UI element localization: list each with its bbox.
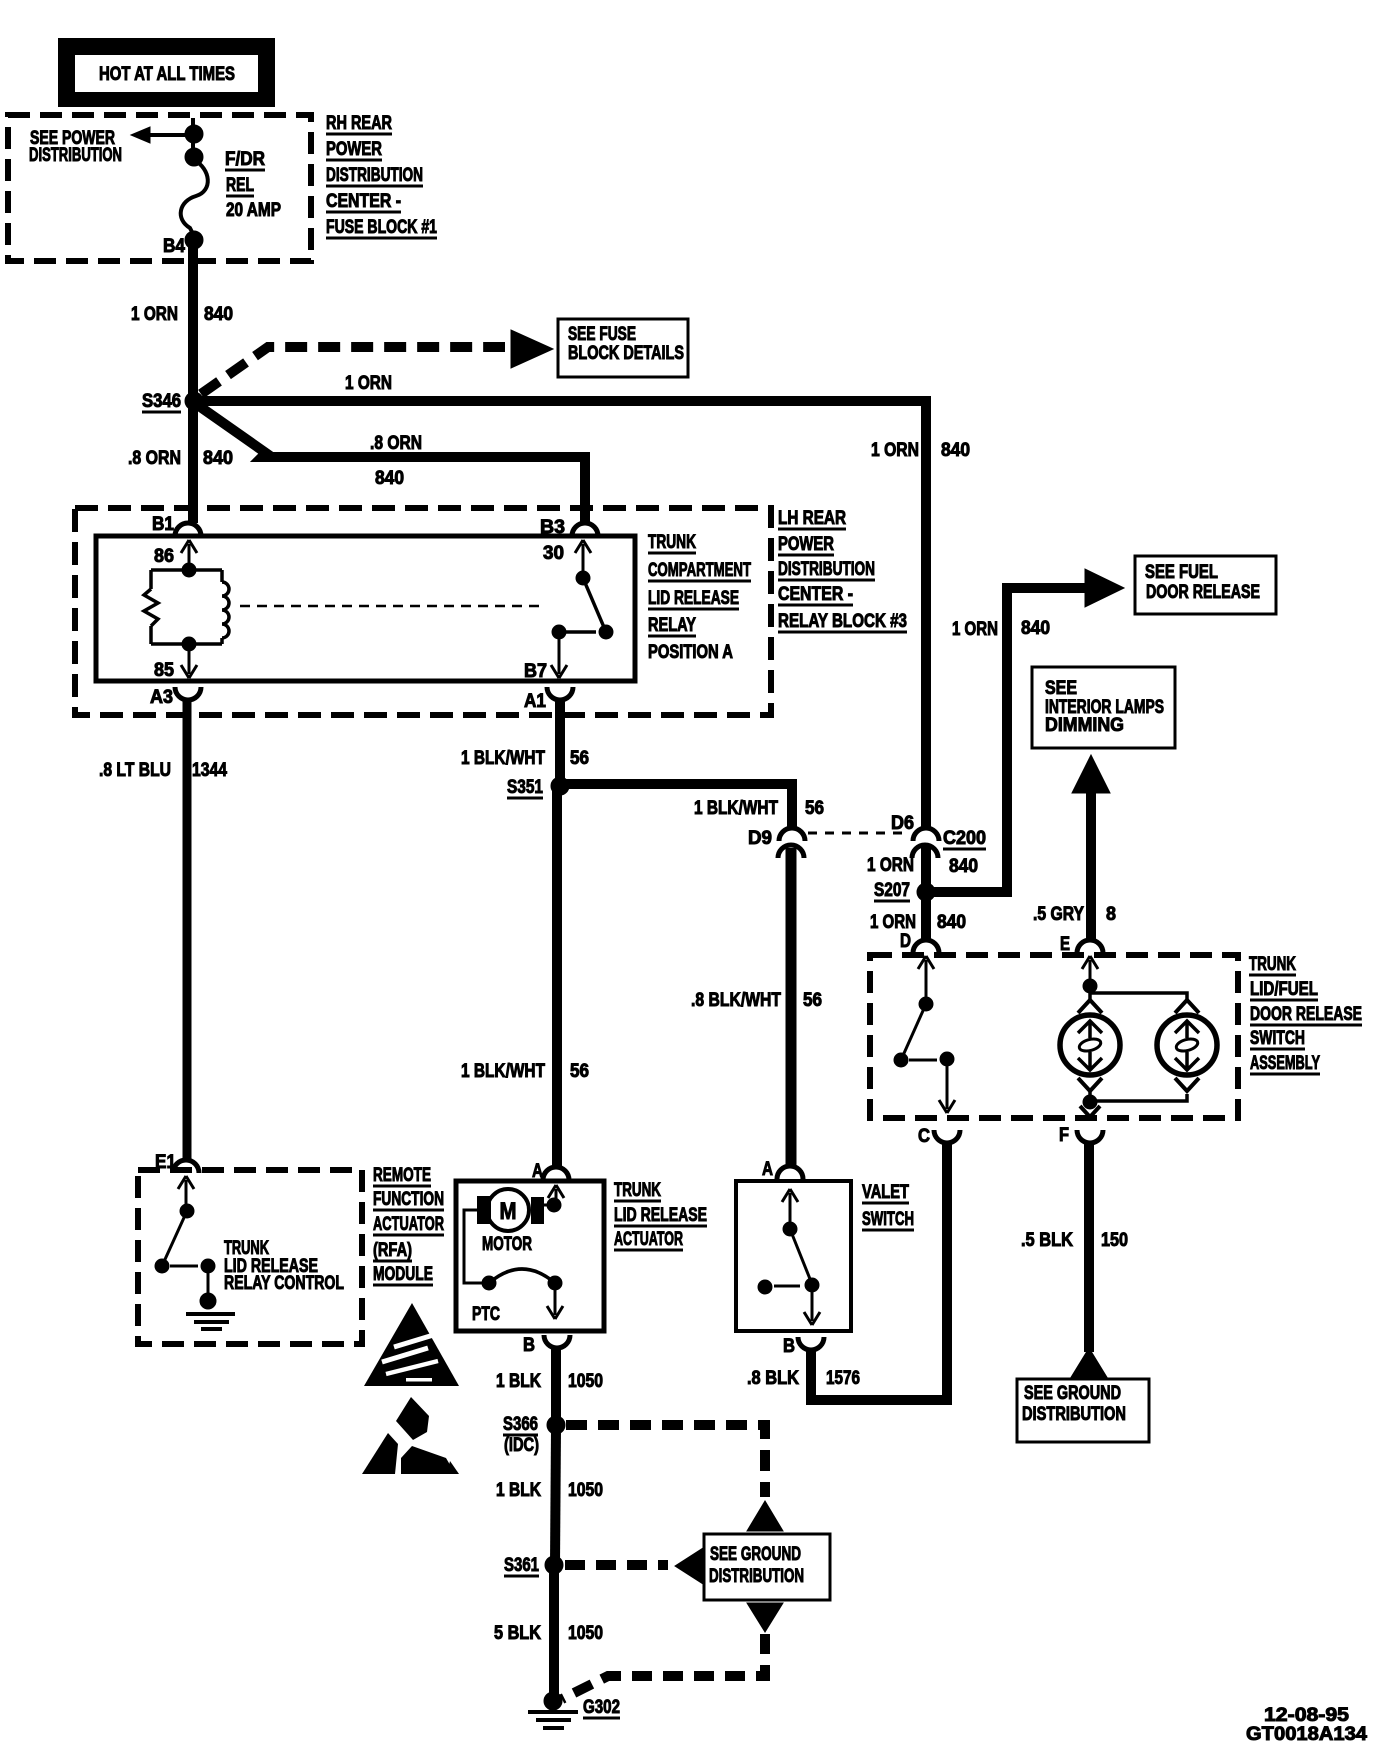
svg-text:85: 85 — [154, 660, 174, 681]
svg-text:1 BLK: 1 BLK — [496, 1371, 541, 1392]
RFA contact left — [155, 1259, 169, 1273]
valet contact link dash — [774, 1285, 800, 1288]
svg-text:POSITION A: POSITION A — [648, 642, 733, 663]
motor M — [477, 1189, 544, 1231]
svg-text:8: 8 — [1106, 904, 1116, 925]
relay switch blade — [583, 578, 606, 632]
svg-text:B: B — [783, 1336, 795, 1357]
svg-text:B3: B3 — [540, 517, 565, 538]
wire B4 to S346 (1 ORN 840) — [188, 243, 198, 397]
svg-text:840: 840 — [949, 856, 978, 877]
connector A3 — [175, 687, 201, 700]
svg-text:SEE GROUND: SEE GROUND — [1024, 1383, 1121, 1404]
svg-text:5 BLK: 5 BLK — [494, 1623, 541, 1644]
svg-text:840: 840 — [204, 304, 233, 325]
ESD warning symbol 1 — [364, 1303, 459, 1386]
assembly contact right — [940, 1052, 954, 1066]
svg-text:840: 840 — [937, 912, 966, 933]
svg-text:D: D — [900, 931, 911, 952]
arrowhead to interior lamps dimming — [1072, 755, 1110, 793]
bulb branch wiring bottom — [1090, 1091, 1187, 1101]
svg-text:1576: 1576 — [826, 1368, 860, 1389]
callout box SEE GROUND DISTRIBUTION — [704, 1534, 830, 1600]
dashed wire S366 to ground distribution — [566, 1425, 765, 1497]
RFA internal ground lead — [207, 1266, 210, 1300]
motor right terminal link — [544, 1204, 554, 1207]
svg-text:E: E — [1060, 934, 1070, 955]
illumination bulb 2 — [1157, 1015, 1217, 1075]
svg-text:TRUNK: TRUNK — [614, 1180, 661, 1201]
valet switch outline — [736, 1181, 851, 1331]
wire A3 to E1 (.8 LT BLU 1344) — [183, 699, 192, 1161]
svg-text:840: 840 — [941, 440, 970, 461]
relay coil top terminal — [182, 563, 196, 577]
RFA module dashed outline — [138, 1170, 362, 1344]
svg-text:DISTRIBUTION: DISTRIBUTION — [709, 1566, 804, 1587]
fuse top terminal — [185, 148, 203, 166]
svg-text:B1: B1 — [152, 514, 174, 535]
assembly contact link dash — [909, 1059, 937, 1062]
wire S346 to C200 (1 ORN 840) — [200, 401, 926, 829]
connector C — [934, 1130, 960, 1143]
svg-text:1 BLK/WHT: 1 BLK/WHT — [461, 748, 545, 769]
svg-text:C200: C200 — [943, 828, 986, 849]
arrowhead down from ground distribution — [747, 1603, 783, 1632]
arrowhead to fuel door release — [1085, 569, 1124, 607]
svg-text:FUSE BLOCK #1: FUSE BLOCK #1 — [326, 217, 437, 238]
valet switch blade — [790, 1229, 812, 1284]
connector B1 — [175, 523, 201, 536]
connector valet A — [777, 1166, 803, 1179]
svg-text:LID RELEASE: LID RELEASE — [648, 588, 739, 609]
svg-text:56: 56 — [570, 1061, 589, 1082]
relay pin 30 arrow — [575, 540, 591, 578]
relay coil bottom terminal — [182, 637, 196, 651]
connector link D9-D6 dashed — [808, 832, 910, 835]
svg-text:CENTER -: CENTER - — [326, 191, 401, 212]
svg-text:840: 840 — [203, 448, 233, 469]
svg-text:VALET: VALET — [862, 1182, 909, 1203]
wire dimming feed to E (.5 GRY 8) — [1086, 790, 1096, 941]
connector F — [1077, 1130, 1103, 1143]
svg-text:DISTRIBUTION: DISTRIBUTION — [1022, 1404, 1126, 1425]
bulb 2 entry chevron — [1175, 1000, 1199, 1013]
svg-text:S361: S361 — [504, 1555, 539, 1576]
svg-text:A1: A1 — [524, 691, 546, 712]
connector E1 — [173, 1160, 199, 1173]
svg-text:.8 ORN: .8 ORN — [128, 448, 181, 469]
RFA contact link dash — [170, 1265, 198, 1268]
fuse element F/DR REL 20 AMP — [181, 160, 208, 236]
RFA ground terminal — [200, 1293, 216, 1309]
svg-text:HOT AT ALL TIMES: HOT AT ALL TIMES — [99, 64, 235, 85]
svg-text:COMPARTMENT: COMPARTMENT — [648, 560, 751, 581]
svg-text:S366: S366 — [503, 1414, 538, 1435]
svg-text:RELAY: RELAY — [648, 615, 696, 636]
svg-text:B7: B7 — [524, 661, 547, 682]
connector D — [913, 940, 939, 953]
assembly switch common — [919, 997, 933, 1011]
wire valet B to C (.8 BLK 1576) — [811, 1142, 947, 1400]
relay pin 86 arrow — [181, 540, 197, 570]
svg-text:150: 150 — [1101, 1230, 1128, 1251]
svg-text:TRUNK: TRUNK — [1249, 954, 1296, 975]
svg-text:1 ORN: 1 ORN — [867, 855, 914, 876]
relay coil — [144, 570, 229, 644]
svg-text:F: F — [1059, 1125, 1069, 1146]
svg-text:SEE GROUND: SEE GROUND — [710, 1544, 801, 1565]
connector A1 — [547, 687, 573, 700]
wire inside fuse block — [191, 118, 195, 162]
svg-text:SWITCH: SWITCH — [1250, 1028, 1305, 1049]
RFA switch arrow to E1 — [178, 1176, 194, 1208]
svg-text:C: C — [918, 1126, 930, 1147]
actuator arrow to B — [547, 1286, 563, 1319]
actuator outline — [456, 1181, 604, 1331]
svg-text:POWER: POWER — [326, 139, 382, 160]
svg-text:S346: S346 — [142, 391, 181, 412]
svg-text:ACTUATOR: ACTUATOR — [373, 1214, 444, 1235]
svg-text:BLOCK DETAILS: BLOCK DETAILS — [568, 343, 684, 364]
power banner HOT AT ALL TIMES — [58, 38, 275, 107]
svg-text:CENTER -: CENTER - — [778, 584, 853, 605]
connector D9 lower — [778, 845, 804, 858]
svg-text:1 ORN: 1 ORN — [952, 619, 998, 640]
svg-text:S351: S351 — [507, 777, 543, 798]
PTC element arc — [489, 1269, 555, 1283]
wire S366 to S361 (1 BLK 1050) — [555, 1429, 556, 1564]
splice S351 — [551, 777, 569, 795]
ESD warning symbol 2 — [362, 1397, 459, 1474]
ground symbol G302 — [528, 1712, 578, 1728]
svg-text:DISTRIBUTION: DISTRIBUTION — [29, 145, 122, 166]
illumination bulb 1 — [1060, 1015, 1120, 1075]
svg-text:G302: G302 — [583, 1697, 620, 1718]
svg-text:1050: 1050 — [568, 1371, 603, 1392]
svg-text:LID/FUEL: LID/FUEL — [1250, 979, 1318, 1000]
wire A1 to S351 (1 BLK/WHT 56) — [555, 699, 565, 786]
svg-text:RELAY CONTROL: RELAY CONTROL — [224, 1273, 344, 1294]
wire S207 to D (1 ORN 840) — [921, 896, 931, 941]
svg-text:.8 BLK: .8 BLK — [747, 1368, 799, 1389]
dashed wire S361 to ground distribution — [565, 1560, 668, 1570]
assembly switch blade — [901, 1004, 926, 1060]
svg-text:B: B — [523, 1335, 535, 1356]
callout box SEE FUSE BLOCK DETAILS — [558, 319, 688, 377]
svg-text:DOOR RELEASE: DOOR RELEASE — [1146, 582, 1260, 603]
svg-text:REL: REL — [226, 175, 254, 196]
arrow to power distribution — [131, 127, 193, 143]
callout box SEE GROUND DISTRIBUTION — [1017, 1379, 1149, 1442]
svg-text:F/DR: F/DR — [225, 149, 265, 170]
wire D9 to valet A (.8 BLK/WHT 56) — [786, 848, 797, 1167]
svg-text:840: 840 — [1021, 618, 1050, 639]
relay contact link dash — [566, 630, 596, 634]
wire C200 to S207 (1 ORN 840) — [921, 846, 931, 891]
ground terminal G302 — [544, 1692, 562, 1710]
connector D9 upper — [779, 828, 805, 841]
assembly switch arrow to D — [918, 956, 934, 1002]
svg-text:.8 ORN: .8 ORN — [370, 433, 422, 454]
svg-text:FUNCTION: FUNCTION — [373, 1189, 444, 1210]
svg-text:MODULE: MODULE — [373, 1264, 433, 1285]
junction on feed — [185, 125, 203, 143]
bulb 2 exit chevron — [1175, 1078, 1199, 1091]
relay switch common — [576, 571, 590, 585]
svg-text:30: 30 — [543, 543, 564, 564]
svg-text:20 AMP: 20 AMP — [226, 200, 281, 221]
svg-text:SWITCH: SWITCH — [862, 1209, 914, 1230]
relay pin 85 arrow — [181, 647, 197, 678]
svg-text:.8 BLK/WHT: .8 BLK/WHT — [691, 990, 781, 1011]
svg-text:B4: B4 — [163, 236, 185, 257]
svg-text:1344: 1344 — [192, 760, 227, 781]
PTC terminal right — [548, 1276, 562, 1290]
splice S346 — [185, 392, 203, 410]
PTC terminal left — [482, 1276, 496, 1290]
svg-text:LID RELEASE: LID RELEASE — [614, 1205, 707, 1226]
arrowhead left to S361 path — [675, 1548, 703, 1584]
svg-text:12-08-95: 12-08-95 — [1264, 1705, 1349, 1726]
svg-text:.5 GRY: .5 GRY — [1033, 904, 1084, 925]
connector E — [1077, 940, 1103, 953]
dashed wire S346 to fuse block details — [201, 347, 505, 394]
valet switch common — [783, 1222, 797, 1236]
motor left terminal wiring — [464, 1210, 484, 1283]
svg-text:(RFA): (RFA) — [373, 1240, 412, 1261]
svg-text:DISTRIBUTION: DISTRIBUTION — [326, 165, 423, 186]
connector D6 lower — [912, 845, 938, 858]
svg-text:1 BLK/WHT: 1 BLK/WHT — [461, 1061, 545, 1082]
valet arrow to B — [804, 1288, 820, 1325]
svg-text:LH REAR: LH REAR — [778, 508, 846, 529]
arrowhead to fuse block details — [511, 330, 553, 368]
wire F to ground distribution (.5 BLK 150) — [1084, 1142, 1094, 1352]
dashed wire ground distribution to G302 — [562, 1634, 765, 1699]
splice S366 — [547, 1416, 565, 1434]
svg-text:D6: D6 — [891, 813, 914, 834]
relay armature dashed link — [240, 605, 540, 608]
callout box SEE FUEL DOOR RELEASE — [1135, 556, 1276, 614]
svg-text:1050: 1050 — [568, 1623, 603, 1644]
wire S207 to fuel door release (1 ORN 840) — [933, 588, 1085, 892]
wire S361 to G302 (5 BLK 1050) — [549, 1569, 559, 1698]
svg-text:RH REAR: RH REAR — [326, 113, 392, 134]
relay body outline — [96, 536, 635, 681]
bulb branch wiring top — [1090, 986, 1187, 1001]
bulb feed junction — [1083, 979, 1097, 993]
connector B3 — [572, 523, 598, 536]
svg-text:56: 56 — [803, 990, 822, 1011]
relay contact NO — [599, 625, 613, 639]
RFA contact right — [201, 1259, 215, 1273]
wire S346 to relay B1 (.8 ORN 840) — [188, 405, 198, 523]
connector actuator A — [543, 1167, 569, 1180]
svg-text:1 ORN: 1 ORN — [345, 373, 392, 394]
svg-text:RELAY BLOCK #3: RELAY BLOCK #3 — [778, 611, 907, 632]
connector valet B — [798, 1337, 824, 1350]
valet contact right — [805, 1278, 819, 1292]
splice S207 — [917, 883, 935, 901]
svg-text:1 ORN: 1 ORN — [870, 912, 916, 933]
svg-text:SEE: SEE — [1045, 678, 1077, 699]
svg-text:DOOR RELEASE: DOOR RELEASE — [1250, 1004, 1362, 1025]
wire S351 to D9 (1 BLK/WHT 56) — [566, 784, 792, 829]
svg-text:ACTUATOR: ACTUATOR — [614, 1229, 683, 1250]
wire actuator B to S366 (1 BLK 1050) — [551, 1348, 561, 1424]
svg-text:M: M — [500, 1198, 517, 1225]
relay contact to B7 — [552, 625, 566, 639]
svg-text:GT0018A134: GT0018A134 — [1246, 1724, 1367, 1745]
svg-text:D9: D9 — [748, 828, 772, 849]
bulb feed arrow from E — [1082, 956, 1098, 984]
assembly exit chevron to F — [1080, 1106, 1100, 1117]
svg-text:DISTRIBUTION: DISTRIBUTION — [778, 559, 875, 580]
switch assembly dashed outline — [870, 955, 1238, 1118]
relay block #3 dashed outline — [75, 508, 771, 715]
fuse block #1 dashed outline — [8, 115, 311, 261]
svg-text:1 BLK: 1 BLK — [496, 1480, 541, 1501]
wire S346 to relay B3 (.8 ORN 840) — [199, 406, 585, 523]
RFA ground symbol — [186, 1314, 235, 1329]
bulb 1 entry chevron — [1078, 1000, 1102, 1013]
bulb return junction — [1083, 1095, 1097, 1109]
actuator arrow to A — [548, 1185, 564, 1204]
bulb 1 exit chevron — [1078, 1078, 1102, 1091]
svg-text:86: 86 — [154, 546, 174, 567]
svg-text:1 BLK/WHT: 1 BLK/WHT — [694, 798, 778, 819]
RFA switch common — [180, 1204, 194, 1218]
svg-text:.8 LT BLU: .8 LT BLU — [99, 760, 171, 781]
svg-text:POWER: POWER — [778, 534, 834, 555]
svg-text:DIMMING: DIMMING — [1045, 715, 1124, 736]
svg-text:TRUNK: TRUNK — [648, 532, 696, 553]
connector actuator B — [544, 1335, 570, 1348]
svg-text:1 ORN: 1 ORN — [871, 440, 919, 461]
svg-text:A: A — [762, 1159, 773, 1180]
svg-text:1 ORN: 1 ORN — [131, 304, 178, 325]
assembly contact left — [894, 1053, 908, 1067]
svg-text:56: 56 — [805, 798, 824, 819]
svg-text:ASSEMBLY: ASSEMBLY — [1250, 1053, 1320, 1074]
terminal B4 — [185, 231, 203, 249]
svg-text:1050: 1050 — [568, 1480, 603, 1501]
relay pin B7 arrow — [551, 635, 567, 678]
motor terminal right — [547, 1198, 561, 1212]
wire S351 to actuator A (1 BLK/WHT 56) — [552, 790, 562, 1168]
svg-text:SEE FUSE: SEE FUSE — [568, 324, 636, 345]
svg-text:MOTOR: MOTOR — [482, 1234, 532, 1255]
RFA switch blade — [162, 1211, 187, 1266]
svg-text:S207: S207 — [874, 880, 910, 901]
svg-text:.5 BLK: .5 BLK — [1021, 1230, 1073, 1251]
svg-text:(IDC): (IDC) — [504, 1435, 539, 1456]
assembly arrow to C — [939, 1062, 955, 1113]
svg-text:A3: A3 — [150, 687, 173, 708]
svg-text:SEE FUEL: SEE FUEL — [1145, 562, 1218, 583]
splice S361 — [545, 1556, 563, 1574]
connector D6 upper — [913, 828, 939, 841]
arrowhead from ground distribution — [1070, 1348, 1108, 1379]
svg-text:PTC: PTC — [472, 1304, 500, 1325]
svg-text:56: 56 — [570, 748, 589, 769]
svg-text:REMOTE: REMOTE — [373, 1165, 431, 1186]
svg-text:840: 840 — [375, 468, 404, 489]
valet contact left — [758, 1280, 772, 1294]
arrowhead up to S366 path — [747, 1501, 783, 1531]
callout box SEE INTERIOR LAMPS DIMMING — [1032, 667, 1175, 748]
valet switch arrow to A — [782, 1189, 798, 1226]
